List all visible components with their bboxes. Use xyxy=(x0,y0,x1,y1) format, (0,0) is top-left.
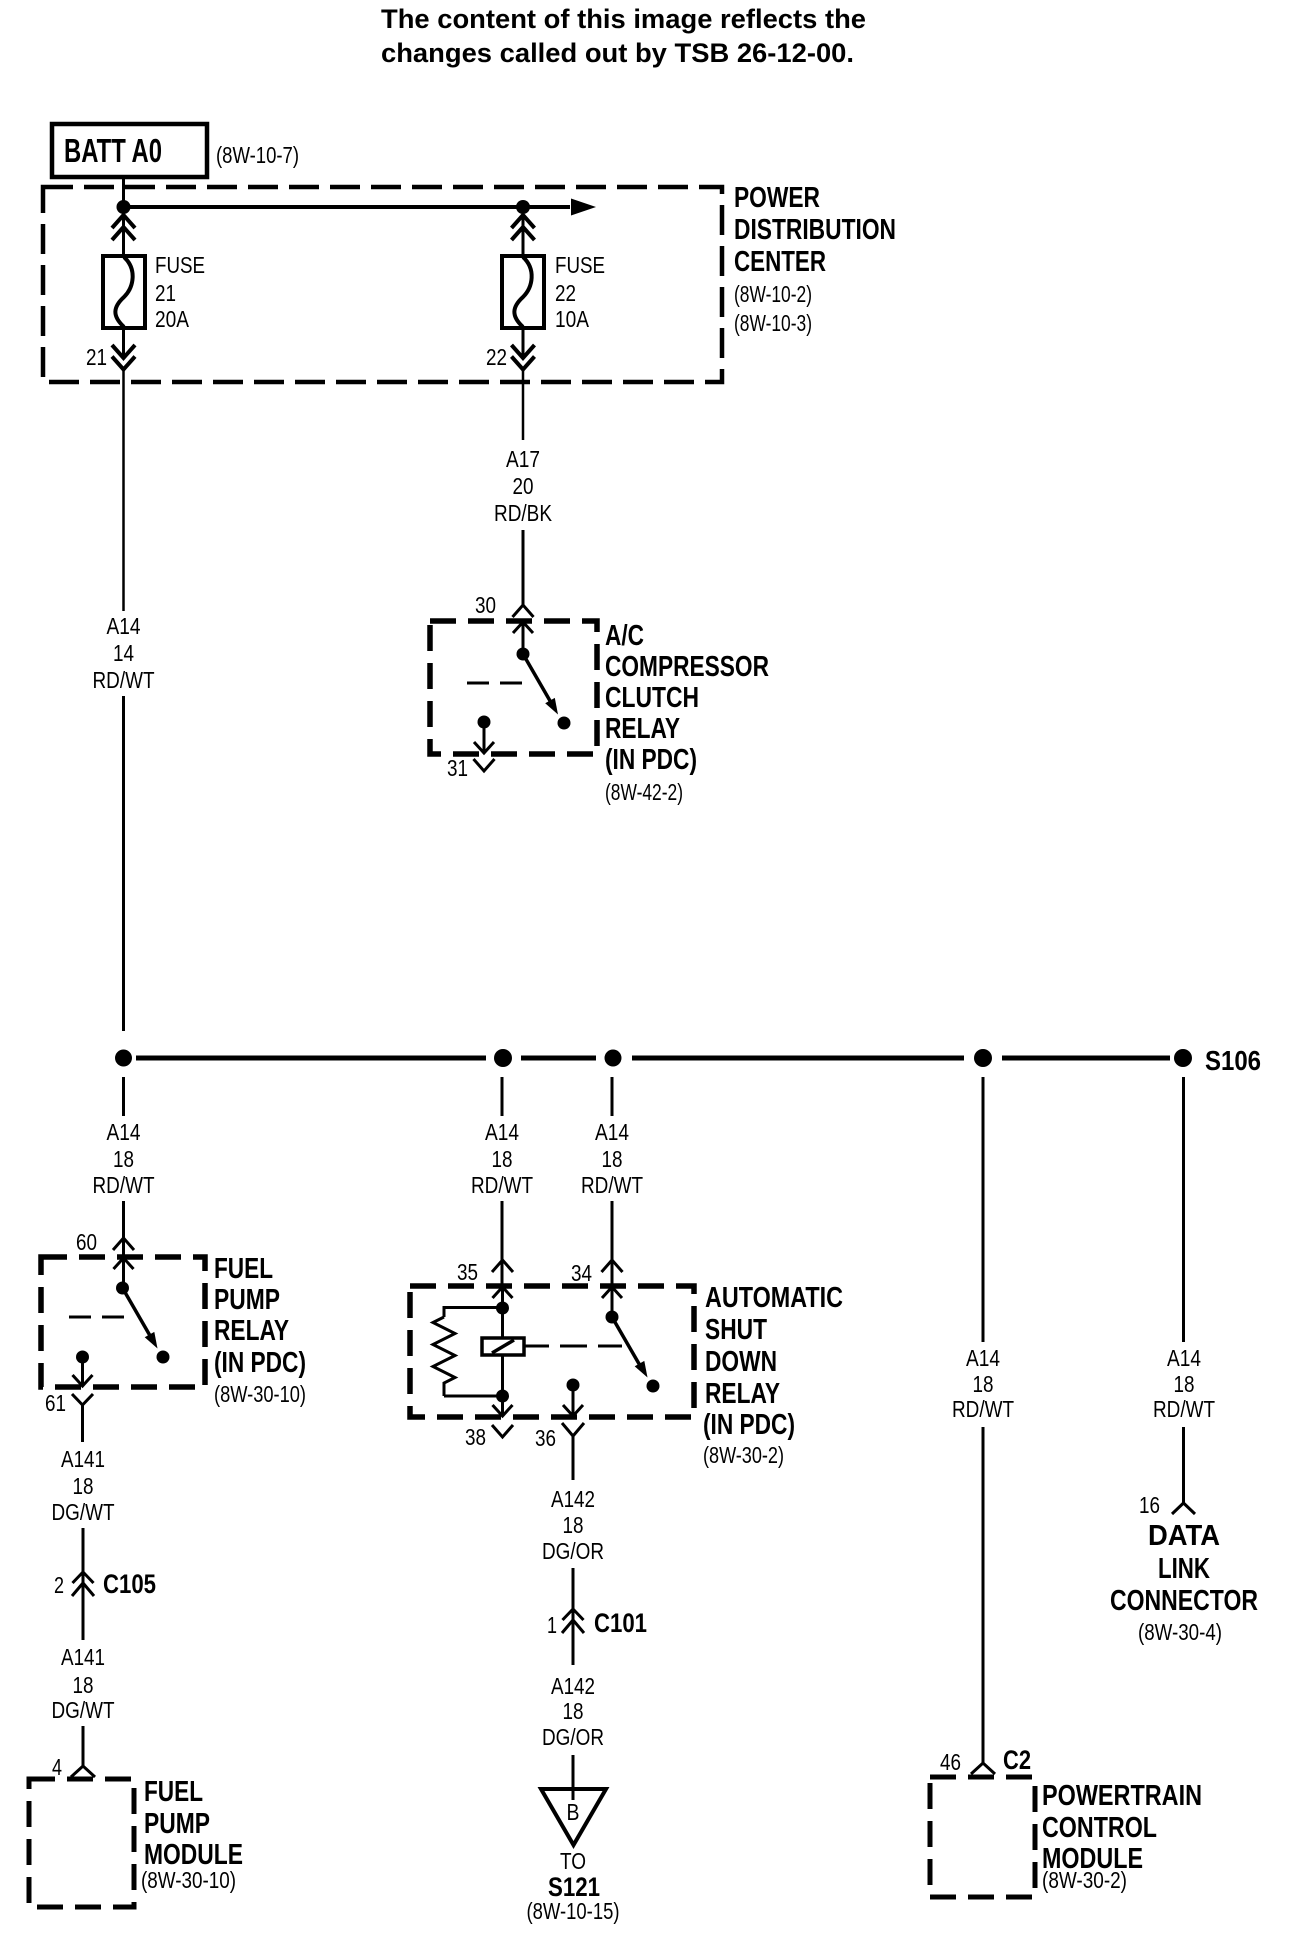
svg-text:46: 46 xyxy=(940,1749,961,1775)
svg-text:18: 18 xyxy=(73,1672,94,1698)
svg-text:30: 30 xyxy=(475,592,496,618)
svg-text:A14: A14 xyxy=(595,1119,629,1145)
node junction at fuse 21 xyxy=(117,200,131,214)
fuel pump relay linkage dashes xyxy=(69,1316,125,1319)
svg-text:FUSE: FUSE xyxy=(555,252,605,278)
svg-text:DG/WT: DG/WT xyxy=(52,1499,115,1525)
svg-text:FUEL: FUEL xyxy=(144,1776,203,1808)
wire into fuse 22 xyxy=(522,207,525,256)
svg-text:A142: A142 xyxy=(551,1486,595,1512)
svg-text:RD/WT: RD/WT xyxy=(93,1172,155,1198)
fuel pump relay common node xyxy=(116,1282,129,1295)
svg-text:FUEL: FUEL xyxy=(214,1253,273,1285)
wire fuse 22 to label A17 xyxy=(522,370,525,441)
svg-text:CLUTCH: CLUTCH xyxy=(605,682,699,714)
svg-text:60: 60 xyxy=(76,1229,97,1255)
fuel pump relay contact node xyxy=(157,1351,170,1364)
relay coil linkage dashes xyxy=(467,682,523,685)
connector chevrons above fuse 21 xyxy=(112,215,135,228)
fuel pump relay box xyxy=(41,1257,205,1387)
svg-text:A17: A17 xyxy=(506,446,540,472)
ASD switch contact node xyxy=(647,1380,660,1393)
pin 34 entry arrow xyxy=(602,1287,622,1298)
fuse 22 10A xyxy=(502,256,544,328)
wire S106 to ASD pin 35 xyxy=(501,1077,504,1116)
svg-text:RD/WT: RD/WT xyxy=(1153,1396,1215,1422)
ASD relay coil xyxy=(501,1308,504,1338)
fuel pump relay switch arm xyxy=(123,1288,153,1340)
svg-text:RD/WT: RD/WT xyxy=(952,1396,1014,1422)
wire S106 to ASD pin 34 xyxy=(611,1077,614,1116)
svg-text:(IN PDC): (IN PDC) xyxy=(214,1347,306,1379)
ASD switch common node xyxy=(606,1311,619,1324)
svg-text:DG/WT: DG/WT xyxy=(52,1697,115,1723)
pin 61 exit arrow xyxy=(73,1375,93,1386)
relay output node pin 31 xyxy=(478,716,491,729)
pin 31 exit arrow xyxy=(474,742,494,753)
battery feed box BATT A0 xyxy=(52,124,207,177)
connector C105 chevrons xyxy=(73,1572,94,1583)
svg-text:POWER: POWER xyxy=(734,182,820,214)
pin 30 entry arrow xyxy=(513,622,533,633)
fuse 21 20A xyxy=(103,256,145,328)
powertrain control module box xyxy=(930,1777,1035,1897)
svg-text:(8W-10-3): (8W-10-3) xyxy=(734,310,812,336)
pin 21 chevrons below fuse 21 xyxy=(112,345,135,358)
svg-text:RD/WT: RD/WT xyxy=(471,1172,533,1198)
svg-text:A14: A14 xyxy=(1167,1345,1201,1371)
svg-text:A/C: A/C xyxy=(605,620,644,652)
svg-text:RELAY: RELAY xyxy=(705,1378,780,1410)
pin 4 connector xyxy=(71,1766,95,1777)
splice node S106 xyxy=(1174,1049,1192,1067)
splice node ASD-34 branch xyxy=(605,1050,622,1067)
node junction at fuse 22 xyxy=(516,200,530,214)
arrow continuation of PDC bus xyxy=(571,199,596,216)
svg-text:RD/WT: RD/WT xyxy=(93,667,155,693)
svg-text:(8W-30-4): (8W-30-4) xyxy=(1138,1619,1222,1645)
pin 35 entry arrow xyxy=(493,1287,513,1298)
svg-text:TO: TO xyxy=(560,1848,586,1874)
relay contact node xyxy=(558,717,571,730)
svg-text:16: 16 xyxy=(1139,1492,1160,1518)
wire A17 to A/C relay pin 30 xyxy=(522,530,525,605)
svg-text:RD/WT: RD/WT xyxy=(581,1172,643,1198)
wire S106 to data link connector xyxy=(1182,1077,1185,1342)
splice node ASD-35 branch xyxy=(494,1049,512,1067)
wire below fuse 22 xyxy=(522,328,525,358)
svg-text:18: 18 xyxy=(602,1146,623,1172)
svg-text:21: 21 xyxy=(155,280,176,306)
svg-text:CONNECTOR: CONNECTOR xyxy=(1110,1585,1258,1617)
svg-text:FUSE: FUSE xyxy=(155,252,205,278)
svg-text:20: 20 xyxy=(513,473,534,499)
svg-text:A14: A14 xyxy=(107,613,141,639)
svg-text:61: 61 xyxy=(45,1390,66,1416)
pin 60 entry arrow xyxy=(114,1258,134,1269)
svg-text:changes called out by TSB 26-1: changes called out by TSB 26-12-00. xyxy=(381,38,854,68)
svg-text:A142: A142 xyxy=(551,1673,595,1699)
svg-text:4: 4 xyxy=(52,1754,62,1780)
svg-text:CONTROL: CONTROL xyxy=(1042,1812,1157,1844)
pin 38 exit arrow xyxy=(501,1396,504,1416)
wire BATT A0 to node xyxy=(122,177,125,207)
svg-text:18: 18 xyxy=(73,1473,94,1499)
svg-text:(8W-30-10): (8W-30-10) xyxy=(141,1867,236,1893)
svg-text:C105: C105 xyxy=(103,1569,156,1599)
svg-text:POWERTRAIN: POWERTRAIN xyxy=(1042,1780,1202,1812)
svg-text:S106: S106 xyxy=(1205,1045,1261,1076)
svg-text:(IN PDC): (IN PDC) xyxy=(605,744,697,776)
svg-text:SHUT: SHUT xyxy=(705,1314,767,1346)
svg-text:(8W-10-15): (8W-10-15) xyxy=(527,1898,620,1924)
svg-text:18: 18 xyxy=(113,1146,134,1172)
svg-text:CENTER: CENTER xyxy=(734,246,826,278)
ASD linkage dashes xyxy=(524,1345,549,1348)
svg-text:The content of this image refl: The content of this image reflects the xyxy=(381,4,866,34)
connector chevrons above fuse 22 xyxy=(512,215,535,228)
svg-text:DISTRIBUTION: DISTRIBUTION xyxy=(734,214,896,246)
ASD coil bottom node pin 38 xyxy=(496,1390,509,1403)
svg-text:34: 34 xyxy=(571,1260,592,1286)
svg-text:35: 35 xyxy=(457,1259,478,1285)
svg-text:COMPRESSOR: COMPRESSOR xyxy=(605,651,769,683)
wire into fuse 21 xyxy=(122,207,125,256)
svg-text:A14: A14 xyxy=(966,1345,1000,1371)
svg-text:2: 2 xyxy=(54,1572,64,1598)
svg-text:(8W-10-2): (8W-10-2) xyxy=(734,281,812,307)
wire bus inside PDC xyxy=(124,205,571,209)
svg-text:DG/OR: DG/OR xyxy=(542,1538,604,1564)
svg-text:22: 22 xyxy=(486,344,507,370)
pin 30 connector xyxy=(513,605,534,617)
svg-text:20A: 20A xyxy=(155,306,190,332)
relay switch arm xyxy=(523,654,553,706)
relay common node xyxy=(517,648,530,661)
svg-text:RELAY: RELAY xyxy=(214,1315,289,1347)
svg-text:C101: C101 xyxy=(594,1608,647,1638)
svg-text:(8W-30-2): (8W-30-2) xyxy=(703,1442,784,1468)
svg-text:(8W-10-7): (8W-10-7) xyxy=(216,142,299,168)
wire to splice symbol B xyxy=(572,1755,575,1800)
ASD output node pin 36 xyxy=(567,1379,580,1392)
svg-text:BATT A0: BATT A0 xyxy=(64,132,162,169)
svg-text:22: 22 xyxy=(555,280,576,306)
svg-text:31: 31 xyxy=(447,755,468,781)
svg-text:DOWN: DOWN xyxy=(705,1346,777,1378)
svg-text:B: B xyxy=(567,1799,580,1825)
wire S106 to PCM xyxy=(982,1077,985,1342)
svg-text:36: 36 xyxy=(535,1425,556,1451)
automatic shut down relay box xyxy=(410,1286,694,1417)
fuel pump module box xyxy=(29,1779,134,1907)
wire to fuel pump module xyxy=(82,1726,85,1766)
pin 35 connector xyxy=(492,1260,513,1272)
pin 46 connector xyxy=(971,1763,995,1774)
svg-text:(8W-30-10): (8W-30-10) xyxy=(214,1381,306,1407)
svg-text:RD/BK: RD/BK xyxy=(494,500,553,526)
svg-text:14: 14 xyxy=(113,640,134,666)
svg-text:38: 38 xyxy=(465,1424,486,1450)
svg-text:DATA: DATA xyxy=(1148,1520,1220,1552)
wire S106 to fuel pump relay xyxy=(122,1077,125,1116)
off-page triangle B to S121 xyxy=(541,1789,606,1845)
svg-text:18: 18 xyxy=(563,1512,584,1538)
svg-text:PUMP: PUMP xyxy=(214,1284,280,1316)
svg-text:C2: C2 xyxy=(1003,1745,1031,1775)
svg-text:18: 18 xyxy=(563,1698,584,1724)
svg-text:10A: 10A xyxy=(555,306,590,332)
splice node fuel pump branch xyxy=(115,1050,132,1067)
pin 34 connector xyxy=(602,1260,623,1272)
resistor parallel branch xyxy=(444,1308,503,1318)
svg-text:18: 18 xyxy=(1174,1371,1195,1397)
svg-text:PUMP: PUMP xyxy=(144,1808,210,1840)
connector C101 chevrons xyxy=(563,1609,584,1620)
svg-text:(IN PDC): (IN PDC) xyxy=(703,1409,795,1441)
wire to connector C101 xyxy=(572,1568,575,1665)
wire A14 down to splice S106 xyxy=(122,696,125,1031)
svg-text:18: 18 xyxy=(973,1371,994,1397)
pin 16 connector xyxy=(1172,1503,1195,1514)
svg-text:LINK: LINK xyxy=(1158,1553,1210,1585)
svg-text:A14: A14 xyxy=(107,1119,141,1145)
splice node PCM branch xyxy=(974,1049,992,1067)
svg-text:21: 21 xyxy=(86,344,107,370)
svg-text:RELAY: RELAY xyxy=(605,713,680,745)
svg-text:1: 1 xyxy=(547,1612,557,1638)
A/C compressor clutch relay box xyxy=(430,621,597,754)
svg-text:A141: A141 xyxy=(61,1644,105,1670)
wire fuse 21 to label A14-14 xyxy=(122,370,125,612)
svg-text:A141: A141 xyxy=(61,1446,105,1472)
svg-text:AUTOMATIC: AUTOMATIC xyxy=(705,1282,843,1314)
pin 36 exit arrow xyxy=(563,1405,583,1416)
svg-text:18: 18 xyxy=(492,1146,513,1172)
svg-text:A14: A14 xyxy=(485,1119,519,1145)
ASD coil top node xyxy=(496,1302,509,1315)
ASD switch arm xyxy=(612,1317,642,1369)
pin 61 connector below box xyxy=(72,1394,93,1405)
pin 38 connector below box xyxy=(492,1425,513,1437)
pin 22 chevrons below fuse 22 xyxy=(512,345,535,358)
svg-text:(8W-42-2): (8W-42-2) xyxy=(605,779,683,805)
wire to connector C105 xyxy=(82,1528,85,1640)
pin 60 connector xyxy=(113,1238,134,1250)
svg-text:DG/OR: DG/OR xyxy=(542,1724,604,1750)
splice S106 bus wire xyxy=(136,1056,486,1061)
pin 36 connector below box xyxy=(562,1423,584,1436)
fuel pump relay output node pin 61 xyxy=(76,1351,89,1364)
svg-text:(8W-30-2): (8W-30-2) xyxy=(1042,1867,1127,1893)
power distribution center box xyxy=(43,187,722,382)
wire below fuse 21 xyxy=(122,328,125,358)
pin 31 connector below box xyxy=(474,759,495,771)
